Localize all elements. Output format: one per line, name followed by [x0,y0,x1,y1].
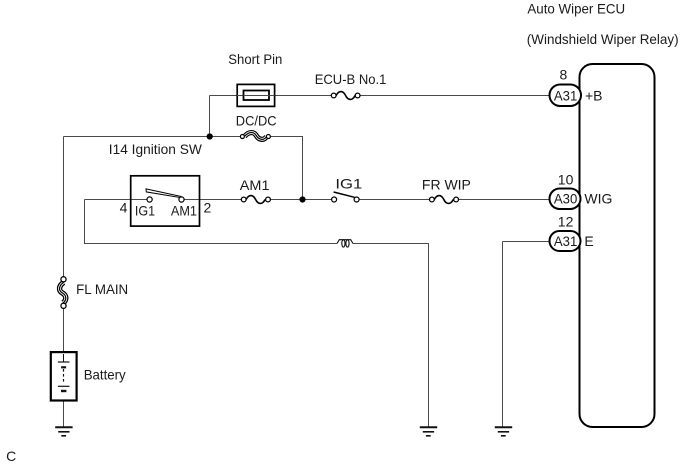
svg-text:Battery: Battery [84,367,126,383]
svg-text:IG1: IG1 [335,175,362,191]
svg-text:12: 12 [558,213,574,229]
svg-text:IG1: IG1 [135,202,155,218]
svg-text:FR WIP: FR WIP [422,176,471,192]
svg-text:DC/DC: DC/DC [236,113,277,129]
svg-text:WIG: WIG [584,191,612,207]
svg-text:Auto Wiper ECU: Auto Wiper ECU [527,1,625,17]
svg-text:A31: A31 [554,87,578,103]
svg-text:FL MAIN: FL MAIN [76,281,128,297]
svg-text:A30: A30 [554,191,578,207]
svg-text:C: C [6,448,16,464]
svg-text:A31: A31 [554,233,578,249]
svg-text:2: 2 [204,200,212,216]
svg-text:AM1: AM1 [171,202,197,218]
svg-text:AM1: AM1 [240,177,270,193]
svg-text:(Windshield Wiper Relay): (Windshield Wiper Relay) [527,31,679,47]
svg-text:I14 Ignition SW: I14 Ignition SW [109,141,203,157]
svg-text:ECU-B No.1: ECU-B No.1 [315,71,387,87]
svg-text:4: 4 [120,200,128,216]
svg-text:Short Pin: Short Pin [228,51,282,67]
svg-text:+B: +B [585,87,603,103]
svg-text:E: E [584,233,593,249]
svg-text:8: 8 [560,67,568,83]
svg-text:10: 10 [558,171,574,187]
